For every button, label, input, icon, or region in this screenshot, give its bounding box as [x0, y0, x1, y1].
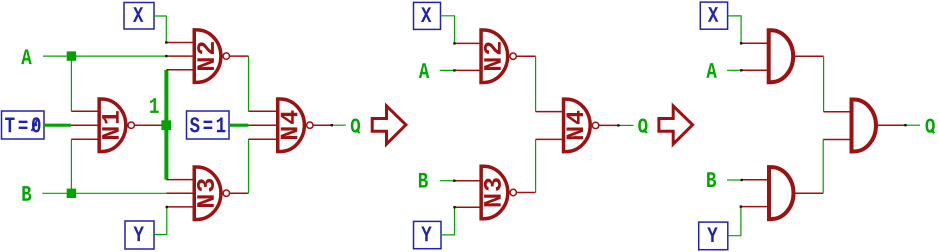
AND3 output pin wire — [878, 124, 906, 126]
wire S=1 to N4 (high, thick) — [229, 124, 248, 127]
N2 mid input pin 2 — [455, 69, 481, 71]
N1 input pin 2 — [71, 124, 99, 126]
wire AND3 out to Q (right) — [905, 124, 920, 126]
wire T=0 to N1 (high, thick) — [44, 124, 71, 127]
transform arrow 1 — [372, 106, 406, 144]
nand gate N1 — [99, 99, 134, 152]
net label A (left) — [21, 49, 32, 64]
wire B (left) — [42, 192, 166, 194]
N4 mid input pin 1 — [536, 111, 564, 113]
wire endpoint dot — [741, 179, 743, 181]
wire A (middle) — [440, 69, 454, 71]
junction net 1 — [161, 120, 171, 130]
N4 input pin 1 — [248, 110, 277, 112]
wire B junction to N1 input — [70, 139, 72, 193]
wire X to N2 (left) — [154, 16, 166, 43]
N4 input pin 3 — [248, 138, 277, 140]
N3 input pin 1 — [166, 179, 194, 181]
wire B (middle) — [440, 180, 455, 182]
wire endpoint dot — [453, 180, 455, 182]
N3 mid input pin 2 — [455, 206, 481, 208]
wire endpoint dot — [617, 124, 619, 126]
nand gate N3 (middle) — [481, 166, 516, 219]
input box Y (middle) — [414, 221, 442, 248]
net label B (middle) — [419, 173, 428, 188]
output label Q (left) — [351, 119, 360, 134]
input box T=0 — [2, 111, 45, 139]
N2 input pin 2 — [166, 55, 194, 57]
wire N2 out to N4 — [248, 56, 250, 111]
wire N2 out to N4 (middle) — [535, 56, 537, 111]
and gate AND3 (right out) — [852, 100, 877, 152]
wire Y to N3 (left) — [154, 207, 167, 235]
wire endpoint dot — [166, 206, 168, 208]
AND2 input pin 2 — [741, 206, 769, 208]
net value label 1 — [150, 98, 159, 113]
junction on net A — [67, 51, 76, 60]
input box X (left) — [124, 3, 154, 30]
input box S=1 — [187, 111, 230, 139]
wire X to AND1 (right) — [728, 16, 742, 43]
AND1 input pin 2 — [741, 69, 768, 71]
output label Q (middle) — [638, 119, 647, 134]
wire X to N2 (middle) — [441, 16, 455, 44]
AND2 input pin 1 — [742, 179, 769, 181]
wire endpoint dot — [453, 69, 455, 71]
AND3 input pin 2 — [823, 139, 851, 141]
and gate AND2 (right bottom) — [769, 167, 794, 219]
input box Y (right) — [699, 222, 728, 250]
transform arrow 2 — [659, 106, 693, 144]
N3 input pin 2 — [166, 192, 194, 194]
wire endpoint dot — [453, 42, 455, 44]
slash of zero in T=0 — [32, 119, 38, 131]
wire endpoint dot — [165, 41, 167, 43]
wire endpoint dot — [740, 69, 742, 71]
wire N3 out to N4 — [248, 139, 250, 193]
net label A (middle) — [419, 63, 430, 78]
N4 input pin 2 — [248, 124, 277, 126]
wire endpoint dot — [165, 55, 167, 57]
net 1 thick vertical (high) — [164, 70, 168, 180]
wire endpoint dot — [740, 205, 742, 207]
nand gate N3 — [194, 167, 229, 220]
wire N4 out to Q (left) — [332, 124, 346, 126]
N4 output pin wire — [313, 124, 332, 126]
wire AND1 out to AND3 — [823, 56, 825, 111]
net label B (right) — [707, 172, 716, 187]
nand gate N4 — [278, 99, 313, 152]
N2 mid output pin wire — [517, 55, 536, 57]
wire AND2 out to AND3 — [822, 140, 824, 194]
N2 output pin wire — [230, 55, 249, 57]
N4 mid output pin wire — [599, 124, 618, 126]
nand gate N2 — [194, 30, 229, 83]
N2 input pin 1 — [166, 42, 194, 44]
junction on net B — [67, 189, 76, 198]
wire Y to N3 (middle) — [441, 207, 455, 235]
N4 mid input pin 2 — [536, 138, 564, 140]
N2 input pin 3 — [166, 69, 194, 71]
AND1 input pin 1 — [741, 42, 768, 44]
AND1 output pin wire — [795, 55, 824, 57]
N1 input pin 3 — [71, 138, 99, 140]
AND3 input pin 1 — [824, 111, 852, 113]
N3 output pin wire — [230, 192, 249, 194]
N3 mid output pin wire — [517, 192, 536, 194]
net label A (right) — [706, 63, 717, 78]
N3 input pin 3 — [167, 206, 194, 208]
N3 mid input pin 1 — [455, 180, 481, 182]
and gate AND1 (right top) — [769, 30, 793, 82]
nand gate N2 (middle) — [481, 30, 516, 82]
wire A junction to N1 input — [70, 56, 72, 111]
wire Y to AND2 (right) — [728, 207, 741, 236]
N2 mid input pin 1 — [455, 42, 481, 44]
wire endpoint dot — [453, 206, 455, 208]
wire N3 out to N4 (middle) — [535, 139, 537, 192]
wire endpoint dot — [904, 124, 906, 126]
wire A (left) — [43, 55, 166, 57]
output label Q (right) — [926, 119, 935, 134]
net label B (left) — [22, 186, 31, 201]
input box X (middle) — [414, 2, 441, 29]
N1 output pin wire — [135, 124, 162, 126]
wire N4 out to Q (middle) — [618, 124, 633, 126]
wire B (right) — [727, 179, 741, 181]
N1 input pin 1 — [71, 110, 99, 112]
wire A (right) — [727, 69, 741, 71]
wire endpoint dot — [331, 124, 333, 126]
input box X (right) — [700, 2, 727, 29]
input box Y (left) — [125, 221, 154, 249]
AND2 output pin wire — [795, 192, 823, 194]
nand gate N4 (middle) — [564, 99, 599, 151]
wire endpoint dot — [740, 42, 742, 44]
